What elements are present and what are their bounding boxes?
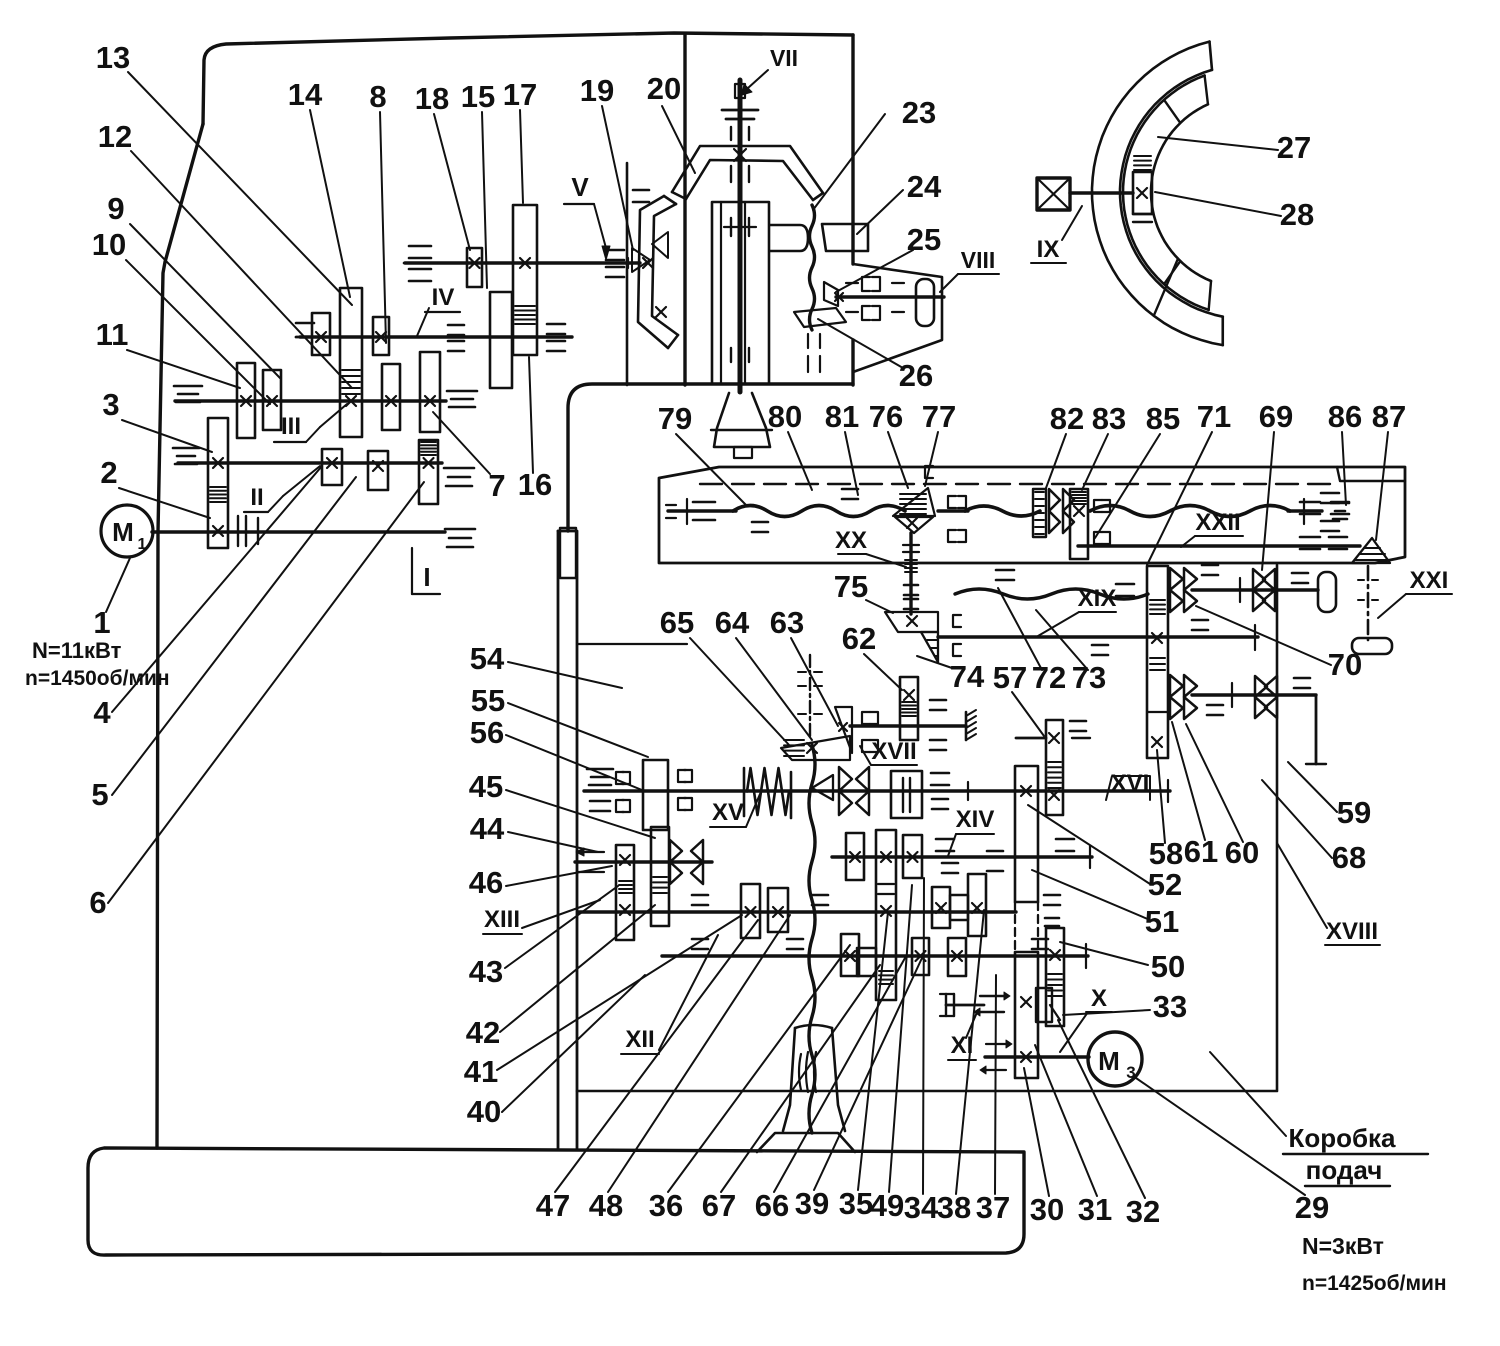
- svg-text:73: 73: [1072, 660, 1106, 695]
- leader 64: [736, 638, 812, 740]
- ring arm x-mark: [656, 307, 666, 317]
- svg-text:16: 16: [518, 467, 552, 502]
- svg-text:V: V: [571, 172, 589, 202]
- leader 87: [1376, 432, 1388, 540]
- leader 18: [434, 114, 470, 250]
- svg-text:4: 4: [93, 695, 111, 730]
- svg-text:19: 19: [580, 73, 614, 108]
- leader 6: [108, 482, 424, 903]
- svg-text:XVII: XVII: [871, 738, 916, 765]
- svg-text:86: 86: [1328, 399, 1362, 434]
- svg-text:XXII: XXII: [1195, 509, 1240, 536]
- svg-text:32: 32: [1126, 1194, 1160, 1229]
- svg-text:49: 49: [870, 1188, 904, 1223]
- gear 6-7 column lower: [419, 440, 438, 504]
- clutch jaws right of bevel: [948, 496, 956, 508]
- svg-text:12: 12: [98, 119, 132, 154]
- leader 42: [500, 905, 655, 1032]
- gear 17 tall: [513, 205, 537, 355]
- sector gear band inner arc: [1151, 104, 1211, 281]
- clutch dashes below squiggle: [807, 334, 809, 348]
- shaft 695 bend down: [1315, 695, 1318, 764]
- band right end marks: [1300, 501, 1320, 504]
- bevel at band right end: [1352, 538, 1390, 563]
- gear 67 small: [857, 948, 876, 976]
- ring gear housing inner: [686, 160, 813, 200]
- svg-text:50: 50: [1151, 949, 1185, 984]
- leader 69: [1262, 432, 1274, 570]
- leader 29: [1136, 1078, 1305, 1195]
- shaft III right bearing: [447, 390, 477, 393]
- gear 48 on XII: [768, 888, 788, 932]
- worm wave 3: [1090, 506, 1290, 517]
- spindle spline marks 3: [730, 218, 732, 236]
- svg-text:XVIII: XVIII: [1326, 918, 1378, 945]
- svg-text:30: 30: [1030, 1192, 1064, 1227]
- bevel 75 wedge: [885, 612, 938, 632]
- clutch box with bar: [891, 771, 922, 818]
- ring arm strip inner: [652, 204, 678, 335]
- XV right dashes: [931, 772, 949, 775]
- leader 57: [1012, 692, 1044, 736]
- svg-text:I: I: [423, 562, 430, 592]
- leader 47: [555, 920, 758, 1192]
- gear 13 on shaft IV: [312, 313, 330, 355]
- leader 40: [502, 975, 645, 1112]
- shaft VIII dashes: [846, 282, 858, 284]
- shaft 956: [662, 954, 1088, 957]
- svg-text:III: III: [281, 413, 301, 440]
- spindle spline marks 2: [730, 166, 732, 182]
- svg-text:82: 82: [1050, 401, 1084, 436]
- svg-text:XV: XV: [712, 799, 744, 826]
- leader 35: [858, 912, 888, 1190]
- ring arm bearing: [633, 189, 649, 192]
- spindle head housing bulge around shaft VIII: [853, 264, 942, 372]
- bevel 74 wedge: [921, 632, 938, 662]
- big column side dash: [1044, 894, 1060, 897]
- gear 36 on 956: [841, 934, 859, 976]
- worm mid marks 1: [925, 466, 933, 478]
- leader 54: [508, 662, 622, 688]
- shaft 1004 stub: [946, 1004, 984, 1007]
- leader 81: [845, 432, 858, 495]
- shaft XII long: [578, 910, 1016, 913]
- gear 37 on 956: [948, 938, 966, 976]
- svg-text:68: 68: [1332, 840, 1366, 875]
- svg-text:74: 74: [950, 659, 985, 694]
- svg-text:n=1425об/мин: n=1425об/мин: [1302, 1272, 1447, 1295]
- shaft V left arrows: [409, 245, 431, 248]
- leader XIX: [1038, 612, 1079, 636]
- svg-text:N=11кВт: N=11кВт: [32, 638, 122, 663]
- bearing dashes near 62: [930, 699, 946, 702]
- shaft II right bearing: [444, 467, 474, 470]
- ring arm caps: [664, 196, 676, 204]
- worm wave 2: [965, 506, 1040, 516]
- svg-text:24: 24: [907, 169, 942, 204]
- feed column wall (tall narrow): [558, 531, 577, 1150]
- svg-text:XIV: XIV: [956, 806, 995, 833]
- worm mid straight: [938, 509, 968, 512]
- clutch block between columns: [1036, 988, 1052, 1022]
- gear column B XIII: [651, 827, 669, 926]
- feed gearbox bottom edge: [577, 1090, 1277, 1093]
- leader 46: [506, 866, 612, 886]
- leader 14: [310, 110, 350, 297]
- svg-text:75: 75: [834, 569, 868, 604]
- svg-text:61: 61: [1184, 834, 1218, 869]
- jaws mid: [678, 770, 686, 782]
- leader 23: [813, 114, 885, 210]
- svg-text:11: 11: [96, 317, 129, 352]
- worm wave 1: [733, 506, 905, 517]
- svg-text:70: 70: [1328, 647, 1362, 682]
- wavy shaft XIX: [955, 589, 1148, 599]
- svg-text:54: 54: [470, 641, 505, 676]
- svg-text:X: X: [1091, 985, 1107, 1012]
- leader 3: [122, 420, 212, 452]
- leader IX: [1062, 206, 1082, 240]
- motor M1 circle: [101, 505, 153, 557]
- svg-text:7: 7: [488, 468, 505, 503]
- svg-text:N=3кВт: N=3кВт: [1302, 1233, 1384, 1259]
- gear on shaft VIII capsule: [916, 279, 934, 326]
- shaft XIII: [575, 860, 712, 863]
- gear 47 on XII: [741, 884, 760, 938]
- sector gear band outer arc: [1123, 76, 1209, 310]
- shaft I: [152, 530, 445, 533]
- svg-text:28: 28: [1280, 197, 1314, 232]
- bearing box with cross: [1037, 178, 1070, 210]
- svg-text:9: 9: [107, 191, 124, 226]
- bell arcs: [799, 1054, 801, 1090]
- leader XX: [866, 554, 906, 567]
- sector division line 1: [1164, 100, 1180, 123]
- leader 19: [602, 106, 633, 250]
- leader 45: [506, 790, 655, 838]
- leader XXI: [1378, 594, 1406, 618]
- leader 49: [889, 885, 912, 1192]
- svg-text:5: 5: [91, 777, 108, 812]
- shaft XI: [985, 1055, 1089, 1058]
- vertical shaft 63-64 dash: [809, 655, 811, 740]
- leader 65: [690, 638, 790, 746]
- spindle output tongue: [770, 225, 808, 251]
- worm bevel 76-77: [893, 488, 935, 516]
- bevel 63 wedge: [781, 736, 850, 760]
- svg-text:51: 51: [1145, 904, 1179, 939]
- leader 83: [1082, 434, 1108, 490]
- break squiggle near 23: [810, 205, 815, 330]
- shift fork chevrons XIII: [670, 840, 682, 862]
- svg-text:39: 39: [795, 1186, 829, 1221]
- ground anchor: [965, 712, 968, 740]
- shaft VIII jaws: [862, 277, 870, 291]
- shaft 590: [1192, 588, 1318, 591]
- handle XXI: [1352, 638, 1392, 654]
- shaft XI bearing arrows: [986, 1043, 1006, 1045]
- chevrons on XV: [839, 767, 852, 791]
- svg-text:38: 38: [937, 1190, 971, 1225]
- svg-text:87: 87: [1372, 399, 1406, 434]
- shaft 63-64 ticks: [798, 671, 806, 673]
- svg-text:IX: IX: [1037, 236, 1060, 263]
- 956 dashes: [692, 938, 708, 941]
- svg-text:45: 45: [469, 769, 503, 804]
- shaft IV mid bearings: [448, 324, 464, 327]
- leader 20: [662, 106, 695, 173]
- fork symbol: [945, 994, 947, 1016]
- jaws on XVII: [862, 712, 870, 724]
- svg-text:M: M: [1098, 1046, 1120, 1076]
- clutch 85 jaws: [1094, 500, 1102, 512]
- shaft IV: [300, 335, 572, 338]
- svg-text:26: 26: [899, 358, 933, 393]
- sector outer arc: [1092, 42, 1223, 346]
- gear 2-3 column: [208, 418, 228, 548]
- leader 86: [1342, 432, 1346, 505]
- svg-text:37: 37: [976, 1190, 1010, 1225]
- svg-text:67: 67: [702, 1188, 736, 1223]
- cone clutch wedge: [812, 775, 833, 800]
- leader 58: [1157, 750, 1165, 843]
- band dashed line: [700, 483, 1335, 485]
- shaft XVII: [850, 724, 966, 727]
- shaft XV-XVI: [584, 789, 1170, 792]
- shaft II left bearing: [173, 447, 199, 450]
- leader 67: [721, 965, 880, 1192]
- leader 4: [112, 466, 322, 712]
- shaft XIV: [832, 855, 1092, 858]
- svg-text:63: 63: [770, 605, 804, 640]
- band outline: [659, 467, 1405, 563]
- machine column outline (speed gearbox body): [203, 33, 853, 124]
- shaft XXII: [1078, 544, 1360, 547]
- leader 75: [866, 600, 893, 613]
- XII dashes: [692, 894, 708, 897]
- leader 55: [508, 703, 648, 757]
- gear 34 on XIV: [903, 835, 922, 878]
- support trapezoid: [757, 1133, 855, 1152]
- shaft IX line: [1070, 191, 1133, 194]
- svg-text:77: 77: [922, 399, 956, 434]
- svg-text:56: 56: [470, 715, 504, 750]
- leader 28: [1155, 192, 1281, 216]
- sector outer band inner arc: [1120, 70, 1223, 317]
- gear 4 on shaft II: [322, 449, 342, 485]
- leader 2: [119, 488, 210, 518]
- XIV right dashes: [936, 838, 954, 841]
- svg-text:Коробка: Коробка: [1288, 1123, 1396, 1153]
- leader 60: [1186, 724, 1243, 842]
- svg-text:43: 43: [469, 954, 503, 989]
- shaft XXI marks: [1358, 579, 1364, 581]
- leader 13: [128, 72, 352, 305]
- chevron pair upper-right: [1253, 569, 1265, 590]
- ring arm strip outer: [638, 196, 668, 348]
- svg-text:23: 23: [902, 95, 936, 130]
- shaft XX marks: [903, 544, 919, 546]
- spindle top knob: [735, 84, 745, 98]
- leader 44: [508, 832, 598, 852]
- gear 82 chevrons: [1033, 489, 1046, 537]
- bevel pair 19-20: [632, 248, 650, 272]
- ring gear housing caps: [672, 192, 686, 199]
- svg-text:83: 83: [1092, 401, 1126, 436]
- leader 77: [925, 432, 938, 486]
- svg-text:подач: подач: [1306, 1155, 1383, 1185]
- svg-text:XIX: XIX: [1078, 585, 1117, 612]
- svg-text:55: 55: [471, 683, 505, 718]
- shaft II: [178, 461, 442, 464]
- svg-text:81: 81: [825, 399, 859, 434]
- bevel gear 26 wing: [794, 308, 846, 327]
- leader III: [320, 404, 347, 427]
- svg-text:1: 1: [138, 536, 147, 553]
- svg-text:52: 52: [1148, 867, 1182, 902]
- svg-text:8: 8: [369, 79, 386, 114]
- leader 7: [433, 412, 490, 474]
- svg-text:59: 59: [1337, 795, 1371, 830]
- ring gear housing outer: [672, 146, 823, 193]
- chevron pair lower-right: [1255, 676, 1267, 697]
- leader XIII: [522, 900, 600, 928]
- svg-text:VIII: VIII: [961, 247, 996, 273]
- svg-text:XX: XX: [835, 527, 867, 554]
- svg-text:46: 46: [469, 865, 503, 900]
- leader 34: [923, 878, 924, 1194]
- spindle x-mark on ring: [734, 149, 746, 161]
- gear column XVIII tall: [1147, 566, 1168, 758]
- svg-text:14: 14: [288, 77, 323, 112]
- svg-text:3: 3: [102, 387, 119, 422]
- leader 26: [818, 319, 903, 368]
- spindle head right wall: [851, 35, 854, 264]
- shaft V mid bearing: [606, 249, 624, 252]
- svg-text:62: 62: [842, 621, 876, 656]
- leader XII: [659, 935, 718, 1050]
- shaft IV left arrow marks: [296, 322, 314, 325]
- leader 48: [608, 915, 790, 1192]
- svg-text:II: II: [250, 484, 263, 511]
- leader 39: [814, 958, 922, 1190]
- svg-text:79: 79: [658, 401, 692, 436]
- gear 56 big: [643, 760, 668, 830]
- shaft V: [405, 261, 640, 264]
- leader 11: [127, 350, 240, 388]
- worm right end: [1288, 509, 1322, 512]
- leader 5: [112, 477, 356, 795]
- leader 68: [1262, 780, 1332, 858]
- shaft III left bearing: [174, 385, 202, 388]
- leader 79: [676, 434, 746, 505]
- leader 15: [482, 112, 487, 288]
- spindle quill rect: [712, 202, 769, 384]
- worm shaft left end: [668, 509, 736, 512]
- gear column A XIII: [616, 845, 634, 940]
- svg-text:25: 25: [907, 222, 941, 257]
- leader 32: [1058, 1020, 1145, 1198]
- label I tag: [411, 548, 413, 594]
- leader 63: [791, 638, 838, 726]
- gear 14 tall column: [340, 288, 362, 437]
- spindle bearing top: [722, 109, 758, 112]
- shaft XX vertical: [909, 533, 912, 614]
- svg-text:10: 10: [92, 227, 126, 262]
- svg-text:44: 44: [470, 811, 505, 846]
- feed gearbox right wall: [1276, 565, 1279, 1090]
- shaft 695: [1192, 693, 1316, 696]
- leader 24: [857, 190, 903, 234]
- spindle spline marks 1: [730, 127, 732, 140]
- spindle head divider wall: [683, 34, 686, 385]
- chevron pair lower-left on XVIII: [1170, 675, 1183, 697]
- svg-text:1: 1: [93, 605, 110, 640]
- svg-text:71: 71: [1197, 399, 1231, 434]
- shaft to XIX cluster: [938, 635, 1258, 638]
- svg-text:36: 36: [649, 1188, 683, 1223]
- leader 9: [130, 224, 280, 378]
- leader 62: [864, 654, 902, 690]
- leader 8: [380, 112, 386, 343]
- leader 41: [497, 915, 742, 1070]
- double arrows right: [980, 995, 1004, 997]
- leader 66: [774, 958, 905, 1192]
- shaft 738 stub: [1016, 737, 1046, 740]
- gear 38 pair on XII: [932, 887, 950, 928]
- svg-text:33: 33: [1153, 989, 1187, 1024]
- bearing dashes cluster right: [1202, 564, 1218, 567]
- shaft XXI dash-dot: [1367, 566, 1370, 640]
- gear 39 on 956: [912, 938, 929, 975]
- machine base (bed): [88, 1148, 1024, 1255]
- gear 28 pinion: [1133, 172, 1152, 214]
- gear 62: [900, 677, 918, 740]
- svg-text:13: 13: [96, 40, 130, 75]
- svg-text:20: 20: [647, 71, 681, 106]
- leader 59: [1288, 762, 1337, 812]
- svg-text:64: 64: [715, 605, 750, 640]
- spindle head bottom edge with corner: [568, 384, 853, 531]
- leader 74: [917, 656, 952, 668]
- leader 73: [1036, 610, 1088, 670]
- labels 58 52 51 50 33 leaders: [1028, 805, 1150, 884]
- gear 35 on XIV: [846, 833, 864, 880]
- bevel gear 25: [824, 282, 838, 306]
- shaft VIII: [836, 295, 944, 298]
- break squiggle long: [809, 745, 815, 1133]
- roller capsule: [1318, 572, 1336, 612]
- leader 43: [505, 886, 618, 968]
- leader 16: [529, 357, 533, 473]
- leader 12: [131, 151, 352, 388]
- leader IV: [417, 308, 429, 336]
- gear 10 on shaft III: [382, 364, 400, 430]
- svg-text:57: 57: [993, 660, 1027, 695]
- gear 7 column upper: [420, 352, 440, 432]
- svg-text:60: 60: [1225, 835, 1259, 870]
- spindle spline marks low: [730, 348, 732, 362]
- svg-text:2: 2: [100, 455, 117, 490]
- svg-text:XVI: XVI: [1111, 770, 1150, 797]
- svg-text:85: 85: [1146, 401, 1180, 436]
- svg-text:VII: VII: [770, 45, 798, 71]
- gear 18 on shaft V: [467, 248, 482, 287]
- svg-text:47: 47: [536, 1188, 570, 1223]
- band top-right notch: [1337, 467, 1405, 481]
- leader V arrow: [594, 204, 606, 248]
